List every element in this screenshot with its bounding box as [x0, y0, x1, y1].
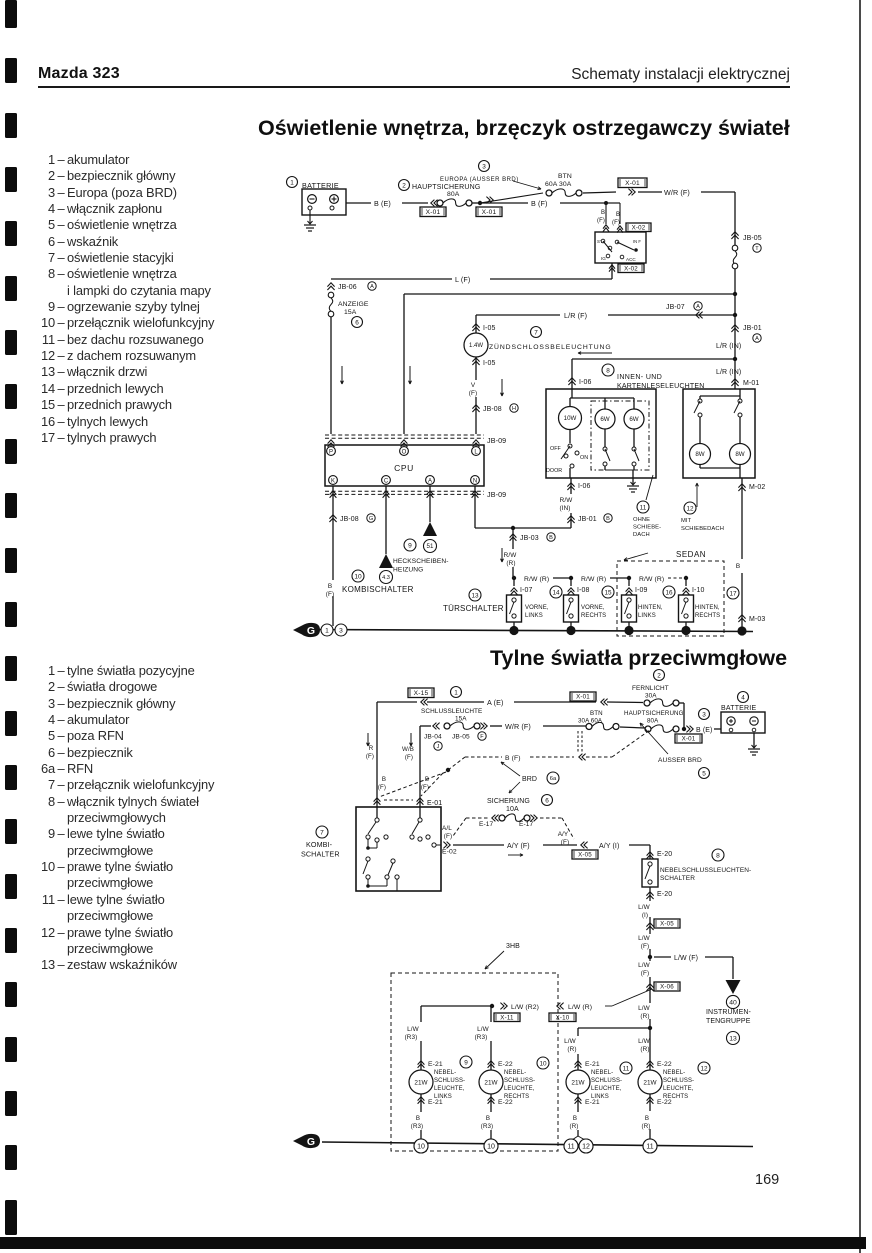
svg-text:L/W: L/W	[477, 1026, 490, 1033]
svg-text:SCHLUSS-: SCHLUSS-	[591, 1078, 622, 1084]
svg-text:A/Y (F): A/Y (F)	[507, 843, 530, 850]
svg-text:R/W (R): R/W (R)	[581, 576, 606, 583]
svg-text:L (F): L (F)	[455, 275, 470, 284]
svg-text:HAUPTSICHERUNG: HAUPTSICHERUNG	[624, 710, 684, 717]
svg-text:21W: 21W	[414, 1079, 428, 1086]
svg-text:A: A	[696, 304, 700, 310]
svg-text:1: 1	[325, 627, 329, 634]
svg-text:4: 4	[741, 694, 745, 701]
svg-text:10: 10	[354, 573, 362, 580]
svg-text:(R3): (R3)	[475, 1034, 488, 1041]
svg-text:G: G	[369, 516, 373, 522]
svg-text:X-01: X-01	[482, 209, 497, 216]
svg-text:(R): (R)	[640, 1013, 649, 1020]
svg-text:L/R (IN): L/R (IN)	[716, 369, 741, 376]
svg-text:T: T	[755, 246, 759, 252]
svg-text:E-17: E-17	[479, 821, 494, 828]
svg-text:JB-09: JB-09	[487, 436, 506, 445]
svg-text:10: 10	[487, 1144, 495, 1151]
svg-text:IN F: IN F	[633, 239, 641, 244]
svg-text:RECHTS: RECHTS	[504, 1094, 529, 1100]
svg-text:I-10: I-10	[692, 587, 704, 594]
svg-text:RECHTS: RECHTS	[663, 1094, 688, 1100]
svg-text:SCHLUSSLEUCHTE: SCHLUSSLEUCHTE	[421, 708, 482, 715]
svg-text:SCHIEBEDACH: SCHIEBEDACH	[681, 526, 724, 532]
svg-text:VORNE,: VORNE,	[581, 605, 605, 611]
svg-text:B: B	[736, 563, 740, 570]
svg-text:E-21: E-21	[585, 1099, 600, 1106]
svg-text:K: K	[331, 479, 335, 485]
svg-text:(F): (F)	[641, 943, 649, 950]
svg-text:V: V	[471, 382, 476, 389]
svg-text:SCHLUSS-: SCHLUSS-	[434, 1078, 465, 1084]
svg-text:DACH: DACH	[633, 532, 650, 538]
svg-text:80A: 80A	[647, 718, 659, 725]
svg-text:(R3): (R3)	[411, 1123, 423, 1130]
svg-text:BRD: BRD	[522, 776, 537, 783]
svg-text:IG: IG	[601, 256, 606, 261]
svg-text:I-05: I-05	[483, 360, 495, 367]
svg-text:E-21: E-21	[585, 1061, 600, 1068]
svg-text:N: N	[473, 479, 477, 485]
svg-text:6W: 6W	[600, 416, 609, 423]
svg-text:X-06: X-06	[660, 984, 674, 991]
svg-text:X-11: X-11	[500, 1014, 514, 1021]
svg-text:OHNE: OHNE	[633, 517, 650, 523]
svg-text:3: 3	[702, 711, 706, 718]
svg-text:DOOR: DOOR	[546, 468, 562, 474]
svg-text:(F): (F)	[612, 220, 620, 226]
svg-text:6: 6	[355, 319, 359, 326]
svg-text:1: 1	[454, 689, 458, 696]
svg-text:SCHIEBE-: SCHIEBE-	[633, 525, 661, 531]
svg-text:10W: 10W	[564, 415, 577, 422]
svg-text:5: 5	[702, 770, 706, 777]
svg-text:VORNE,: VORNE,	[525, 605, 549, 611]
svg-text:NEBELSCHLUSSLEUCHTEN-: NEBELSCHLUSSLEUCHTEN-	[660, 867, 751, 874]
svg-text:LEUCHTE,: LEUCHTE,	[663, 1086, 694, 1092]
svg-text:SICHERUNG: SICHERUNG	[487, 798, 530, 805]
svg-text:(F): (F)	[366, 753, 374, 760]
svg-text:FERNLICHT: FERNLICHT	[632, 685, 669, 692]
svg-text:L/W: L/W	[638, 1038, 651, 1045]
svg-text:30A 60A: 30A 60A	[578, 718, 603, 725]
svg-text:R/W (R): R/W (R)	[639, 576, 664, 583]
svg-text:L/W: L/W	[638, 962, 651, 969]
svg-text:40: 40	[729, 999, 737, 1006]
svg-text:L/W: L/W	[564, 1038, 577, 1045]
svg-text:A: A	[428, 479, 432, 485]
svg-text:(F): (F)	[597, 218, 605, 224]
svg-text:X-01: X-01	[625, 180, 640, 187]
svg-text:80A: 80A	[447, 191, 460, 198]
svg-text:(R3): (R3)	[481, 1123, 493, 1130]
svg-text:KOMBI-: KOMBI-	[306, 840, 333, 849]
svg-text:M-02: M-02	[749, 484, 765, 491]
svg-text:9: 9	[464, 1059, 468, 1066]
svg-text:9: 9	[408, 542, 412, 549]
svg-text:10: 10	[539, 1060, 547, 1067]
svg-text:LEUCHTE,: LEUCHTE,	[591, 1086, 622, 1092]
svg-text:B: B	[382, 776, 386, 783]
svg-text:(F): (F)	[444, 833, 452, 840]
svg-text:X-15: X-15	[414, 690, 429, 697]
svg-text:7: 7	[320, 829, 324, 836]
svg-text:X-02: X-02	[624, 265, 638, 272]
svg-text:I-07: I-07	[520, 587, 532, 594]
svg-text:M-03: M-03	[749, 616, 765, 623]
svg-text:B: B	[606, 516, 610, 522]
svg-text:B: B	[486, 1115, 490, 1122]
svg-text:E-20: E-20	[657, 891, 672, 898]
svg-text:LEUCHTE,: LEUCHTE,	[504, 1086, 535, 1092]
svg-text:I-08: I-08	[577, 587, 589, 594]
svg-text:INNEN- UND: INNEN- UND	[617, 374, 662, 381]
svg-text:TÜRSCHALTER: TÜRSCHALTER	[443, 604, 504, 613]
svg-text:ZÜNDSCHLOSSBELEUCHTUNG: ZÜNDSCHLOSSBELEUCHTUNG	[489, 343, 612, 351]
svg-text:13: 13	[729, 1035, 737, 1042]
svg-text:60A 30A: 60A 30A	[545, 181, 572, 188]
svg-text:E-02: E-02	[442, 849, 457, 856]
svg-text:O: O	[402, 450, 407, 456]
svg-text:(R): (R)	[642, 1123, 651, 1130]
svg-text:EUROPA (AUSSER BRD): EUROPA (AUSSER BRD)	[440, 177, 519, 183]
svg-text:G: G	[307, 625, 315, 637]
svg-text:JB-08: JB-08	[340, 516, 359, 523]
svg-text:LEUCHTE,: LEUCHTE,	[434, 1086, 465, 1092]
svg-text:ON: ON	[580, 455, 588, 461]
svg-text:X-05: X-05	[660, 921, 674, 928]
svg-text:B: B	[573, 1115, 577, 1122]
svg-text:HEIZUNG: HEIZUNG	[393, 567, 423, 574]
svg-text:A/Y (I): A/Y (I)	[599, 843, 619, 850]
svg-text:JB-05: JB-05	[743, 235, 762, 242]
svg-text:B (F): B (F)	[531, 199, 547, 208]
svg-text:11: 11	[640, 504, 647, 511]
svg-text:W/B: W/B	[402, 746, 414, 753]
svg-text:L/R (IN): L/R (IN)	[716, 343, 741, 350]
svg-text:8W: 8W	[695, 451, 704, 458]
svg-text:RECHTS: RECHTS	[695, 613, 720, 619]
svg-text:NEBEL-: NEBEL-	[434, 1070, 456, 1076]
svg-text:I-06: I-06	[578, 483, 590, 490]
svg-text:L/W: L/W	[407, 1026, 420, 1033]
svg-text:L/W (R2): L/W (R2)	[511, 1004, 539, 1011]
svg-text:12: 12	[686, 505, 694, 512]
svg-text:TENGRUPPE: TENGRUPPE	[706, 1018, 751, 1025]
svg-text:B: B	[328, 583, 332, 590]
svg-text:A/L: A/L	[442, 825, 452, 832]
svg-text:BTN: BTN	[558, 173, 572, 180]
svg-text:E-21: E-21	[428, 1099, 443, 1106]
svg-text:(R): (R)	[570, 1123, 579, 1130]
svg-text:KOMBISCHALTER: KOMBISCHALTER	[342, 585, 414, 594]
svg-text:B: B	[549, 535, 553, 541]
svg-text:R: R	[369, 745, 374, 752]
svg-text:8W: 8W	[735, 451, 744, 458]
svg-text:A (E): A (E)	[487, 698, 503, 707]
svg-text:E-21: E-21	[428, 1061, 443, 1068]
svg-text:15A: 15A	[344, 309, 357, 316]
svg-text:LINKS: LINKS	[525, 613, 543, 619]
svg-text:16: 16	[665, 589, 673, 596]
svg-text:LINKS: LINKS	[591, 1094, 609, 1100]
svg-text:HAUPTSICHERUNG: HAUPTSICHERUNG	[412, 184, 481, 191]
svg-text:P: P	[329, 450, 333, 456]
svg-text:A/Y: A/Y	[558, 831, 569, 838]
svg-text:X-02: X-02	[632, 224, 646, 231]
svg-text:B (E): B (E)	[696, 727, 712, 734]
svg-text:E-20: E-20	[657, 851, 672, 858]
svg-text:JB-01: JB-01	[743, 325, 762, 332]
svg-text:13: 13	[471, 592, 479, 599]
svg-text:E-22: E-22	[657, 1061, 672, 1068]
svg-text:W/R (F): W/R (F)	[505, 722, 531, 731]
svg-text:6W: 6W	[629, 416, 638, 423]
svg-text:X-05: X-05	[578, 852, 592, 859]
svg-text:L/W: L/W	[638, 1005, 651, 1012]
svg-text:HECKSCHEIBEN-: HECKSCHEIBEN-	[393, 558, 449, 565]
svg-text:H: H	[512, 406, 516, 412]
svg-text:LINKS: LINKS	[638, 613, 656, 619]
svg-text:JB-07: JB-07	[666, 304, 685, 311]
svg-text:A: A	[370, 284, 374, 290]
svg-text:12: 12	[582, 1144, 590, 1151]
svg-text:15A: 15A	[455, 716, 467, 723]
svg-text:L/W: L/W	[638, 935, 651, 942]
svg-text:JB-04: JB-04	[424, 734, 442, 741]
svg-text:(R): (R)	[640, 1046, 649, 1053]
svg-text:SEDAN: SEDAN	[676, 550, 706, 559]
svg-text:B: B	[425, 776, 429, 783]
svg-text:(R3): (R3)	[405, 1034, 418, 1041]
svg-text:B: B	[616, 212, 620, 218]
svg-text:JB-06: JB-06	[338, 284, 357, 291]
svg-text:11: 11	[646, 1144, 653, 1151]
svg-text:F: F	[480, 734, 484, 740]
svg-text:INSTRUMEN-: INSTRUMEN-	[706, 1009, 752, 1016]
svg-text:W/R (F): W/R (F)	[664, 188, 690, 197]
svg-text:E-17: E-17	[519, 821, 534, 828]
svg-text:2: 2	[402, 182, 406, 189]
svg-text:3HB: 3HB	[506, 943, 520, 950]
svg-text:E-01: E-01	[427, 800, 442, 807]
svg-text:B: B	[601, 210, 605, 216]
svg-text:J: J	[437, 744, 440, 750]
svg-text:X-01: X-01	[682, 736, 696, 743]
svg-text:SCHLUSS-: SCHLUSS-	[663, 1078, 694, 1084]
svg-text:BTN: BTN	[590, 710, 603, 717]
svg-text:(F): (F)	[421, 784, 429, 791]
svg-text:(F): (F)	[405, 754, 413, 761]
svg-text:E-22: E-22	[498, 1099, 513, 1106]
svg-text:SCHALTER: SCHALTER	[301, 850, 340, 859]
svg-text:C: C	[384, 479, 389, 485]
svg-text:12: 12	[700, 1065, 708, 1072]
svg-text:(F): (F)	[469, 390, 477, 397]
svg-text:(R): (R)	[506, 560, 515, 567]
svg-text:BATTERIE: BATTERIE	[721, 705, 756, 712]
svg-text:I-09: I-09	[635, 587, 647, 594]
svg-text:L/W (F): L/W (F)	[674, 955, 698, 962]
svg-text:MIT: MIT	[681, 518, 692, 524]
svg-text:10A: 10A	[506, 806, 519, 813]
svg-text:3: 3	[339, 627, 343, 634]
svg-text:L/W (R): L/W (R)	[568, 1004, 592, 1011]
svg-text:4.3: 4.3	[382, 575, 390, 581]
svg-text:I-06: I-06	[579, 379, 591, 386]
svg-text:X-01: X-01	[576, 694, 590, 701]
svg-text:R/W: R/W	[504, 552, 518, 559]
svg-text:1.4W: 1.4W	[469, 343, 483, 349]
svg-text:NEBEL-: NEBEL-	[504, 1070, 526, 1076]
svg-text:JB-05: JB-05	[452, 734, 470, 741]
svg-text:M-01: M-01	[743, 380, 759, 387]
svg-text:L/R (F): L/R (F)	[564, 311, 587, 320]
svg-text:6: 6	[545, 797, 549, 804]
svg-text:(F): (F)	[378, 784, 386, 791]
svg-text:21W: 21W	[484, 1079, 498, 1086]
svg-text:JB-01: JB-01	[578, 516, 597, 523]
svg-text:L/W: L/W	[638, 904, 651, 911]
svg-text:6a: 6a	[550, 776, 557, 782]
svg-text:10: 10	[417, 1144, 425, 1151]
svg-text:(F): (F)	[326, 591, 334, 598]
svg-text:(F): (F)	[641, 970, 649, 977]
svg-text:R/W (R): R/W (R)	[524, 576, 549, 583]
svg-text:51: 51	[427, 543, 434, 550]
svg-text:8: 8	[716, 852, 720, 859]
svg-text:1: 1	[290, 179, 294, 186]
svg-text:2: 2	[657, 672, 661, 679]
svg-text:I-05: I-05	[483, 325, 495, 332]
svg-text:NEBEL-: NEBEL-	[591, 1070, 613, 1076]
svg-text:B: B	[645, 1115, 649, 1122]
svg-text:R/W: R/W	[560, 497, 574, 504]
svg-text:HINTEN,: HINTEN,	[638, 605, 663, 611]
svg-text:21W: 21W	[571, 1079, 585, 1086]
svg-text:B: B	[416, 1115, 420, 1122]
svg-text:ACC: ACC	[626, 257, 636, 262]
svg-text:17: 17	[729, 590, 737, 597]
svg-text:A: A	[755, 336, 759, 342]
svg-text:8: 8	[606, 367, 610, 374]
svg-text:AUSSER BRD: AUSSER BRD	[658, 757, 702, 764]
svg-text:15: 15	[604, 589, 612, 596]
svg-text:(I): (I)	[642, 912, 648, 919]
svg-text:14: 14	[552, 589, 560, 596]
svg-text:B (E): B (E)	[374, 199, 391, 208]
svg-text:30A: 30A	[645, 693, 657, 700]
svg-text:7: 7	[534, 329, 538, 336]
svg-text:RECHTS: RECHTS	[581, 613, 606, 619]
svg-text:JB-03: JB-03	[520, 535, 539, 542]
svg-text:X-01: X-01	[426, 209, 441, 216]
svg-text:E-22: E-22	[498, 1061, 513, 1068]
svg-text:3: 3	[482, 163, 486, 170]
svg-text:B (F): B (F)	[505, 755, 521, 762]
svg-text:NEBEL-: NEBEL-	[663, 1070, 685, 1076]
svg-text:(IN): (IN)	[559, 505, 570, 512]
svg-text:SCHALTER: SCHALTER	[660, 875, 695, 882]
svg-text:OFF: OFF	[550, 446, 561, 452]
svg-text:G: G	[307, 1136, 315, 1148]
svg-text:LINKS: LINKS	[434, 1094, 452, 1100]
svg-text:11: 11	[567, 1144, 574, 1151]
svg-text:21W: 21W	[643, 1079, 657, 1086]
svg-text:SCHLUSS-: SCHLUSS-	[504, 1078, 535, 1084]
svg-text:CPU: CPU	[394, 463, 414, 473]
svg-text:JB-08: JB-08	[483, 406, 502, 413]
svg-text:E-22: E-22	[657, 1099, 672, 1106]
svg-text:ANZEIGE: ANZEIGE	[338, 301, 369, 308]
svg-text:11: 11	[623, 1065, 630, 1072]
svg-text:(R): (R)	[567, 1046, 576, 1053]
svg-text:HINTEN,: HINTEN,	[695, 605, 720, 611]
svg-text:JB-09: JB-09	[487, 490, 506, 499]
